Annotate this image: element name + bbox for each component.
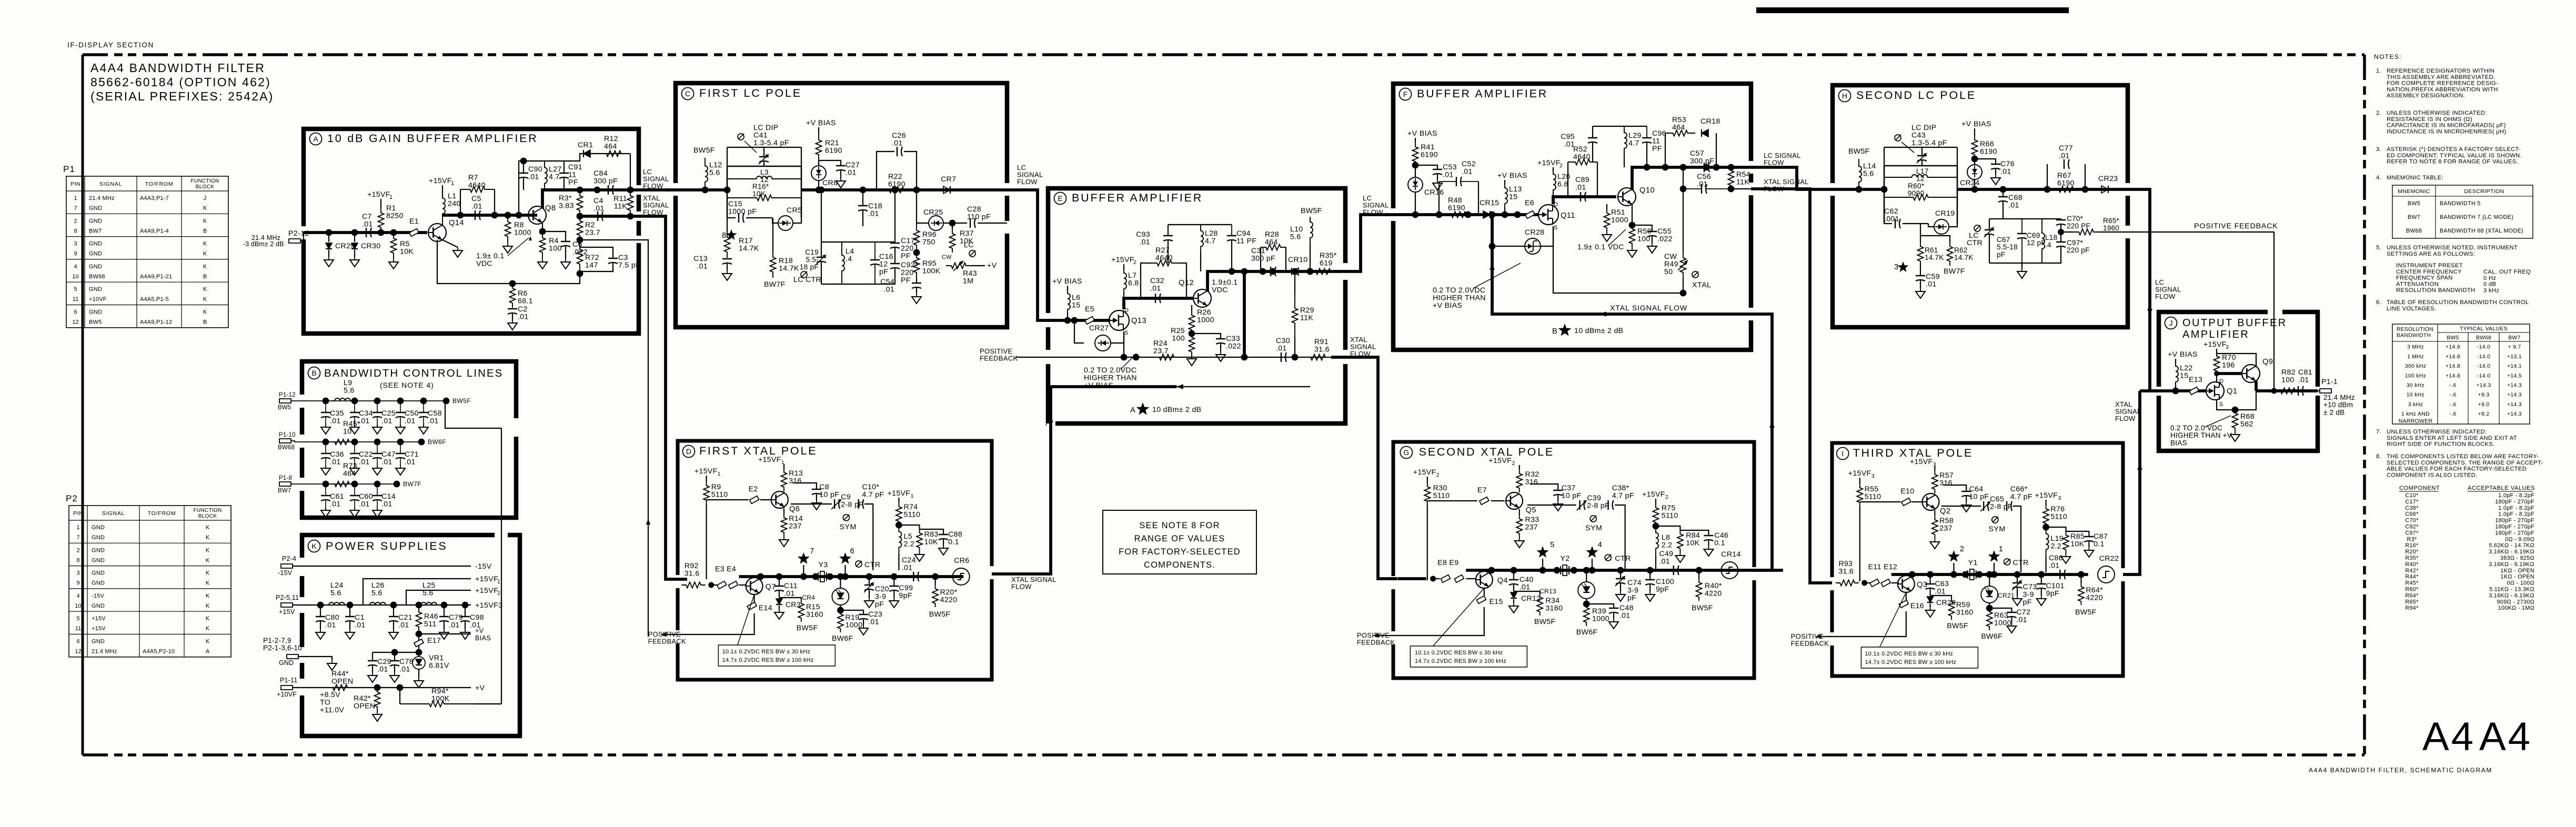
- wire BW68 row: [291, 441, 421, 442]
- wire I XTAL out up to J: [2123, 391, 2140, 574]
- block J title: [2165, 317, 2177, 329]
- capacitor C59: [1920, 266, 1921, 276]
- svg-text:C20: C20: [875, 585, 889, 593]
- wire BW5F distribution: [445, 401, 501, 428]
- svg-text:E16: E16: [1910, 602, 1924, 610]
- svg-text:R94*: R94*: [2405, 605, 2419, 611]
- svg-text:SYM: SYM: [1585, 524, 1602, 532]
- diode CR21 circle: [1989, 574, 1990, 586]
- wire Q13 drain rail: [1124, 298, 1193, 309]
- svg-text:+15VF: +15VF: [429, 177, 452, 185]
- svg-text:R1: R1: [386, 204, 396, 213]
- svg-text:5: 5: [74, 286, 77, 293]
- svg-text:C66*: C66*: [2010, 485, 2028, 493]
- svg-text:R54: R54: [1736, 170, 1750, 179]
- capacitor C69: [2021, 219, 2022, 234]
- svg-text:5.6: 5.6: [371, 589, 383, 598]
- wire Q9 emitter down to output: [2255, 381, 2258, 391]
- resistor R94*: [397, 684, 404, 691]
- capacitor C48: [1586, 604, 1614, 608]
- svg-text:GND: GND: [279, 659, 294, 667]
- svg-text:R44*: R44*: [331, 670, 349, 678]
- junction: [516, 212, 522, 219]
- svg-text:C77: C77: [2059, 144, 2073, 153]
- resistor R15: [779, 598, 801, 600]
- inductor L7: [1123, 264, 1124, 269]
- svg-text:1.3-5.4 pF: 1.3-5.4 pF: [1911, 139, 1947, 147]
- resistor R73: [330, 481, 354, 487]
- wire main XTAL rail: [1466, 569, 1783, 572]
- svg-text:C94: C94: [1236, 229, 1251, 238]
- svg-text:.01: .01: [1575, 184, 1586, 192]
- svg-text:+14.3: +14.3: [2507, 411, 2522, 417]
- svg-text:-14.0: -14.0: [2477, 344, 2490, 350]
- svg-text:0 Hz: 0 Hz: [2483, 275, 2496, 281]
- svg-text:14.7K: 14.7K: [779, 265, 799, 273]
- svg-text:.01: .01: [902, 564, 913, 572]
- svg-text:BW5: BW5: [2408, 200, 2420, 207]
- svg-text:SELECTED COMPONENTS. THE RANGE: SELECTED COMPONENTS. THE RANGE OF ACCEPT…: [2387, 460, 2543, 466]
- svg-text:C26: C26: [892, 132, 906, 140]
- wire input to block A: [300, 233, 329, 241]
- svg-text:.01: .01: [784, 590, 795, 598]
- resistor R50: [1632, 204, 1633, 225]
- inductor L12: [705, 158, 708, 190]
- svg-text:PF: PF: [1652, 145, 1662, 153]
- svg-text:A: A: [313, 135, 318, 143]
- svg-text:+V BIAS: +V BIAS: [806, 119, 836, 127]
- svg-text:R33: R33: [1525, 516, 1539, 524]
- svg-text:+14.3: +14.3: [2507, 382, 2522, 389]
- capacitor C3: [580, 247, 613, 258]
- svg-text:10: 10: [72, 274, 78, 280]
- svg-text:COMPONENT: COMPONENT: [2399, 485, 2440, 491]
- filter box L4 C16: [821, 241, 875, 243]
- capacitor C40: [1511, 567, 1517, 574]
- svg-text:LC DIP: LC DIP: [1911, 124, 1937, 132]
- svg-text:R14: R14: [789, 515, 803, 523]
- svg-text:+V BIAS: +V BIAS: [1497, 172, 1527, 180]
- svg-text:11 PF: 11 PF: [1236, 237, 1256, 246]
- diode CR22 step-recovery: [2098, 566, 2115, 583]
- capacitor C78: [394, 652, 395, 661]
- svg-text:P1-2-7,9: P1-2-7,9: [263, 637, 291, 644]
- inductor L18: [2042, 219, 2045, 263]
- svg-text:5.6: 5.6: [344, 387, 355, 395]
- svg-text:+14.8: +14.8: [2446, 344, 2460, 350]
- wire Q8 collector to top rail: [542, 190, 580, 208]
- resistor R70: [2216, 349, 2217, 354]
- capacitor C32: [1155, 294, 1156, 303]
- svg-text:C11: C11: [784, 582, 798, 590]
- svg-text:FEEDBACK: FEEDBACK: [1791, 640, 1829, 648]
- junction: [1260, 268, 1266, 275]
- svg-text:R3*: R3*: [559, 194, 572, 203]
- capacitor C11: [776, 573, 783, 580]
- wire main rail F: [1393, 213, 1539, 216]
- svg-text:1.0pF - 8.2pF: 1.0pF - 8.2pF: [2498, 492, 2534, 499]
- svg-text:BW68: BW68: [2406, 228, 2422, 234]
- junction: [1436, 211, 1443, 218]
- resistor R92: [681, 582, 706, 588]
- svg-text:L13: L13: [1509, 185, 1522, 194]
- resistor R75: [1655, 499, 1656, 504]
- resistor R59: [1930, 596, 1951, 598]
- svg-text:THE COMPONENTS LISTED BELOW AR: THE COMPONENTS LISTED BELOW ARE FACTORY-: [2387, 453, 2539, 460]
- svg-text:+15VF: +15VF: [1413, 468, 1436, 477]
- wire main input rail: [304, 231, 427, 234]
- svg-text:Q6: Q6: [789, 505, 800, 513]
- wire tank to output H: [1957, 188, 2128, 191]
- svg-text:4.7: 4.7: [1205, 237, 1216, 246]
- diode CR8: [818, 160, 819, 166]
- svg-text:A4A3,P1-7: A4A3,P1-7: [140, 195, 169, 201]
- svg-text:S: S: [1124, 330, 1128, 336]
- junction: [1502, 211, 1508, 218]
- svg-text:L8: L8: [1662, 533, 1670, 542]
- inductor L27: [545, 161, 547, 190]
- diode CR5: [778, 216, 793, 230]
- wire XTAL join J input: [2140, 389, 2159, 392]
- wire input: [1398, 577, 1426, 580]
- svg-text:CR16: CR16: [1424, 188, 1444, 197]
- svg-text:K: K: [206, 570, 210, 577]
- resistor R82: [2281, 388, 2296, 394]
- svg-text:10 kHz: 10 kHz: [2407, 392, 2424, 398]
- svg-text:50: 50: [1664, 268, 1673, 276]
- wire Q1 source bottom: [2217, 400, 2235, 410]
- svg-text:TO/FROM: TO/FROM: [145, 181, 174, 187]
- svg-text:316: 316: [1939, 479, 1953, 488]
- svg-text:100KΩ - 1MΩ: 100KΩ - 1MΩ: [2498, 605, 2534, 611]
- svg-text:+15VF: +15VF: [2035, 491, 2058, 500]
- svg-text:R27: R27: [1155, 246, 1170, 255]
- svg-text:E6: E6: [1525, 199, 1534, 207]
- svg-text:Q8: Q8: [545, 204, 556, 213]
- svg-text:RIGHT SIDE OF FUNCTION BLOCKS.: RIGHT SIDE OF FUNCTION BLOCKS.: [2387, 441, 2494, 448]
- capacitor C55: [1632, 225, 1652, 231]
- inductor L24: [326, 602, 347, 605]
- svg-text:100K: 100K: [431, 695, 450, 703]
- wire R70 to Q9 base: [2217, 372, 2242, 375]
- svg-text:R82: R82: [2281, 368, 2296, 377]
- svg-text:± 2 dB: ± 2 dB: [2323, 408, 2344, 416]
- svg-text:C72: C72: [2016, 608, 2030, 617]
- svg-text:B: B: [203, 274, 207, 280]
- svg-text:C28: C28: [967, 205, 981, 214]
- svg-text:GND: GND: [89, 309, 102, 316]
- svg-text:11: 11: [75, 626, 81, 632]
- inductor L25: [418, 602, 439, 605]
- resistor R29: [1292, 295, 1298, 337]
- tank box L17 R60*: [1884, 166, 1885, 224]
- svg-text:-14.0: -14.0: [2477, 363, 2490, 369]
- svg-text:FLOW: FLOW: [2155, 293, 2176, 300]
- svg-text:L18: L18: [2045, 234, 2057, 241]
- svg-text:R7: R7: [468, 174, 478, 182]
- resistor R7 bypass: [460, 189, 461, 215]
- svg-text:180pF - 270pF: 180pF - 270pF: [2495, 530, 2534, 536]
- block title THIRD XTAL POLE: [1837, 448, 1849, 460]
- svg-text:3: 3: [1871, 473, 1875, 479]
- junction: [351, 439, 358, 446]
- capacitor C46: [1680, 530, 1708, 536]
- ferrite bead E11 E12: [1865, 582, 1870, 583]
- svg-text:7: 7: [810, 547, 814, 556]
- svg-text:12: 12: [75, 649, 81, 655]
- capacitor C22: [354, 442, 355, 453]
- svg-text:3: 3: [1894, 263, 1898, 271]
- diode CR14 step-recovery: [1721, 562, 1738, 579]
- svg-text:.01: .01: [1520, 583, 1531, 592]
- resistor R67: [2047, 187, 2085, 193]
- svg-text:K: K: [206, 639, 210, 645]
- svg-text:R19: R19: [846, 613, 860, 622]
- svg-text:R85: R85: [2070, 532, 2085, 541]
- svg-text:CR23: CR23: [2098, 175, 2118, 183]
- svg-text:R5: R5: [400, 240, 410, 248]
- svg-text:+14.1: +14.1: [2507, 363, 2522, 369]
- svg-text:(SERIAL PREFIXES: 2542A): (SERIAL PREFIXES: 2542A): [90, 89, 274, 103]
- junction: [1728, 164, 1735, 171]
- wire main LC rail H: [1833, 188, 1884, 191]
- svg-text:D: D: [2219, 378, 2223, 385]
- svg-text:10.1± 0.2VDC RES BW ≤ 30 kHz: 10.1± 0.2VDC RES BW ≤ 30 kHz: [1865, 651, 1953, 657]
- svg-text:R92: R92: [685, 562, 699, 570]
- block K title: [308, 540, 320, 552]
- junction: [457, 212, 464, 219]
- svg-text:5110: 5110: [1865, 493, 1881, 501]
- svg-text:+V: +V: [475, 627, 484, 634]
- resistor R65*: [2061, 231, 2073, 233]
- svg-text:GND: GND: [89, 286, 102, 293]
- svg-text:C7: C7: [362, 213, 372, 221]
- svg-text:2: 2: [1512, 460, 1515, 467]
- svg-text:R16*: R16*: [752, 183, 769, 190]
- svg-text:1.: 1.: [2376, 68, 2381, 74]
- svg-text:XTAL SIGNAL FLOW: XTAL SIGNAL FLOW: [1610, 304, 1687, 312]
- svg-text:R84: R84: [1686, 531, 1700, 540]
- svg-text:Q9: Q9: [2262, 358, 2273, 366]
- capacitor C76: [1975, 159, 1996, 164]
- svg-text:GND: GND: [92, 525, 105, 531]
- svg-text:.01: .01: [330, 417, 341, 426]
- resistor R1: [378, 208, 384, 233]
- resistor R5: [391, 233, 397, 259]
- zener VR1: [418, 652, 419, 657]
- svg-text:2: 2: [1436, 472, 1440, 478]
- svg-text:R41: R41: [1421, 143, 1435, 152]
- block A title: [310, 133, 322, 145]
- capacitor C96: [1646, 126, 1647, 138]
- svg-text:Q7: Q7: [766, 583, 776, 591]
- svg-text:5: 5: [1550, 541, 1554, 549]
- svg-text:196: 196: [2222, 361, 2235, 370]
- capacitor C94: [1231, 225, 1232, 236]
- svg-text:A4A5,P1-5: A4A5,P1-5: [140, 296, 169, 302]
- svg-text:SIGNALS ENTER AT LEFT SIDE AND: SIGNALS ENTER AT LEFT SIDE AND EXIT AT: [2387, 435, 2517, 441]
- svg-text:R49: R49: [1664, 260, 1678, 269]
- resistor R20*: [932, 573, 939, 580]
- svg-text:OUTPUT BUFFER: OUTPUT BUFFER: [2182, 317, 2287, 329]
- junction: [1861, 580, 1867, 586]
- capacitor C100: [1647, 567, 1654, 574]
- resistor R8: [505, 215, 511, 243]
- resistor R22: [877, 187, 917, 193]
- svg-text:L6: L6: [1072, 294, 1080, 302]
- svg-text:6190: 6190: [1421, 151, 1438, 159]
- svg-text:SIGNAL: SIGNAL: [99, 181, 122, 187]
- svg-text:.01: .01: [381, 417, 393, 426]
- svg-text:.01: .01: [381, 458, 393, 467]
- svg-text:5110: 5110: [904, 511, 921, 519]
- svg-text:S: S: [2219, 401, 2223, 408]
- svg-text:A4: A4: [2422, 714, 2476, 759]
- svg-text:3 MHz: 3 MHz: [2407, 344, 2424, 350]
- svg-text:316: 316: [789, 477, 802, 486]
- svg-text:.01: .01: [330, 458, 341, 467]
- junction: [708, 582, 714, 588]
- svg-text:C34: C34: [359, 409, 373, 418]
- capacitor C53: [1415, 165, 1437, 169]
- capacitor C90: [519, 173, 528, 174]
- resistor R58: [1934, 510, 1935, 516]
- wire F LC out to H: [1751, 167, 1833, 189]
- svg-text:S: S: [1554, 225, 1557, 231]
- svg-text:C30: C30: [1276, 337, 1290, 345]
- capacitor C31: [1270, 267, 1271, 276]
- note box SEE NOTE 8: [1103, 510, 1256, 574]
- svg-text:+14.3: +14.3: [2476, 382, 2491, 389]
- svg-text:CR30: CR30: [361, 242, 380, 250]
- transistor Q2: [1922, 493, 1939, 510]
- svg-text:C50: C50: [405, 409, 419, 418]
- svg-text:7: 7: [76, 534, 79, 541]
- collector rail F: [1632, 167, 1751, 190]
- svg-text:R61: R61: [1925, 246, 1938, 254]
- positive feedback H to J top: [2128, 232, 2274, 316]
- junction: [1703, 164, 1710, 171]
- star 6: [839, 552, 851, 564]
- resistor R3*: [577, 190, 583, 216]
- svg-text:9090: 9090: [1908, 189, 1925, 197]
- svg-text:BW7F: BW7F: [403, 480, 421, 488]
- diode CR3: [776, 599, 782, 604]
- svg-text:C84: C84: [593, 169, 608, 178]
- capacitor C61: [325, 484, 326, 496]
- svg-text:2.2: 2.2: [904, 540, 915, 549]
- capacitor C84: [608, 185, 609, 195]
- junction: [420, 398, 427, 405]
- svg-text:5110: 5110: [2050, 513, 2067, 521]
- svg-text:VDC: VDC: [1212, 286, 1228, 295]
- svg-text:C93: C93: [1136, 230, 1150, 239]
- svg-text:GND: GND: [92, 547, 105, 553]
- svg-text:ABLE VALUES FOR EACH FACTORY-S: ABLE VALUES FOR EACH FACTORY-SELECTED: [2387, 466, 2527, 472]
- svg-text:.01: .01: [1139, 238, 1150, 247]
- capacitor C101: [2038, 571, 2045, 578]
- capacitor C25: [377, 401, 378, 412]
- wire LC C to E: [1007, 190, 1048, 320]
- junction: [378, 229, 385, 236]
- svg-text:+10VF: +10VF: [89, 296, 107, 302]
- svg-text:C81: C81: [2298, 368, 2312, 377]
- svg-text:4.7 pF: 4.7 pF: [1612, 492, 1634, 500]
- svg-text:511: 511: [424, 620, 437, 629]
- svg-text:R30: R30: [1433, 484, 1447, 492]
- capacitor C27: [819, 160, 841, 166]
- svg-text:R12: R12: [604, 135, 618, 143]
- svg-text:pF: pF: [1627, 594, 1636, 602]
- top rail C95-L29-C96: [1593, 126, 1647, 127]
- svg-text:ASSEMBLY DESIGNATION.: ASSEMBLY DESIGNATION.: [2387, 93, 2465, 99]
- left solid border: [82, 55, 84, 755]
- svg-text:C2: C2: [518, 305, 528, 314]
- svg-text:R40*: R40*: [2405, 561, 2419, 568]
- svg-text:+15VF: +15VF: [695, 467, 718, 476]
- svg-text:2: 2: [1133, 259, 1136, 266]
- resistor R51: [1606, 204, 1607, 209]
- svg-text:-14.0: -14.0: [2477, 372, 2490, 379]
- wire H LC out to J: [2128, 189, 2159, 391]
- svg-text:14.7± 0.2VDC RES BW ≥ 100 kHz: 14.7± 0.2VDC RES BW ≥ 100 kHz: [722, 657, 814, 663]
- svg-text:SYM: SYM: [1988, 525, 2005, 533]
- svg-text:+15VF: +15VF: [1910, 458, 1933, 466]
- svg-text:A4A9,P1-12: A4A9,P1-12: [140, 319, 172, 326]
- junction: [1489, 211, 1496, 218]
- resistor R53: [1665, 130, 1695, 136]
- svg-text:9pF: 9pF: [1656, 586, 1669, 594]
- svg-text:R29: R29: [1300, 306, 1314, 315]
- svg-text:pF: pF: [1997, 250, 2005, 258]
- svg-text:C10*: C10*: [2405, 492, 2419, 499]
- svg-text:R15: R15: [806, 603, 820, 611]
- resistor R12: [597, 151, 630, 157]
- ferrite bead E16: [1906, 592, 1907, 600]
- svg-text:1.9± 0.1: 1.9± 0.1: [476, 252, 505, 260]
- svg-text:Q11: Q11: [1561, 211, 1575, 220]
- svg-text:R4: R4: [549, 237, 559, 245]
- junction: [1292, 268, 1299, 275]
- svg-text:C53: C53: [1443, 163, 1457, 172]
- ferrite bead E10: [1860, 501, 1900, 502]
- svg-text:4.7: 4.7: [549, 173, 560, 181]
- capacitor C6: [542, 231, 566, 241]
- scan artifact bar top: [1756, 7, 2069, 13]
- junction: [351, 398, 358, 405]
- transistor Q9: [2242, 365, 2260, 382]
- svg-text:+15VF: +15VF: [888, 489, 911, 498]
- svg-text:R35*: R35*: [1320, 251, 1337, 260]
- svg-text:CR6: CR6: [954, 557, 969, 565]
- svg-text:+15V: +15V: [92, 616, 106, 622]
- collector rail thick: [1207, 271, 1336, 291]
- wire main LC rail: [676, 188, 727, 191]
- svg-text:E: E: [1058, 194, 1062, 203]
- wire +15VF2 tap: [406, 590, 471, 605]
- svg-text:C65: C65: [1990, 495, 2004, 503]
- wire tank to output: [801, 188, 1007, 191]
- svg-text:.01: .01: [359, 458, 370, 467]
- svg-text:L26: L26: [371, 581, 385, 590]
- svg-text:5.11KΩ - 13.3KΩ: 5.11KΩ - 13.3KΩ: [2489, 587, 2534, 593]
- transistor Q5: [1506, 492, 1523, 509]
- svg-text:C97*: C97*: [2405, 530, 2419, 536]
- svg-text:Y1: Y1: [1968, 559, 1978, 567]
- block title SECOND XTAL POLE: [1400, 447, 1412, 459]
- resistor R85: [2046, 527, 2066, 531]
- svg-text:L19: L19: [2050, 534, 2064, 543]
